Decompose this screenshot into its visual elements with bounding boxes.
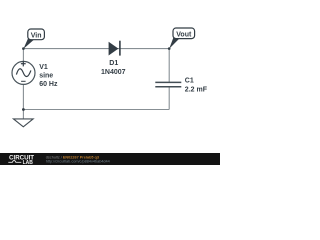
footer bar — [0, 153, 220, 165]
svg-text:http://circuitlab.com/c/p884v4: http://circuitlab.com/c/p884v4bab4d44 — [46, 160, 110, 164]
capacitor C1 — [155, 82, 181, 86]
svg-text:2.2 mF: 2.2 mF — [185, 87, 208, 94]
wire left vertical lower (V1 bottom to ground bus) — [22, 84, 24, 109]
wire right vertical upper (Vout node to C1 top plate) — [168, 49, 170, 83]
voltage source V1 — [12, 61, 35, 84]
svg-text:V1: V1 — [39, 64, 48, 71]
svg-text:C1: C1 — [185, 77, 194, 84]
wire ground stub — [22, 110, 24, 119]
svg-text:60 Hz: 60 Hz — [39, 81, 58, 88]
ground — [14, 119, 34, 127]
svg-text:LAB: LAB — [23, 160, 34, 165]
svg-text:Vout: Vout — [176, 31, 192, 38]
svg-text:1N4007: 1N4007 — [101, 69, 126, 76]
node Vout dot — [168, 47, 171, 50]
flag Vout — [169, 28, 194, 49]
wire bottom bus — [23, 109, 169, 111]
wire top (Vin node to Vout node through diode) — [23, 48, 169, 50]
diode D1 — [109, 41, 120, 56]
logo CircuitLab — [8, 155, 34, 166]
svg-text:D1: D1 — [109, 60, 118, 67]
node Vin dot — [22, 47, 25, 50]
svg-text:Vin: Vin — [31, 32, 42, 39]
svg-text:sine: sine — [39, 73, 53, 80]
wire left vertical upper (Vin node to V1 top) — [22, 49, 24, 62]
wire right vertical lower (C1 bottom plate to bus) — [168, 87, 170, 110]
flag Vin — [23, 29, 44, 49]
junction dot ground bus — [22, 108, 25, 111]
